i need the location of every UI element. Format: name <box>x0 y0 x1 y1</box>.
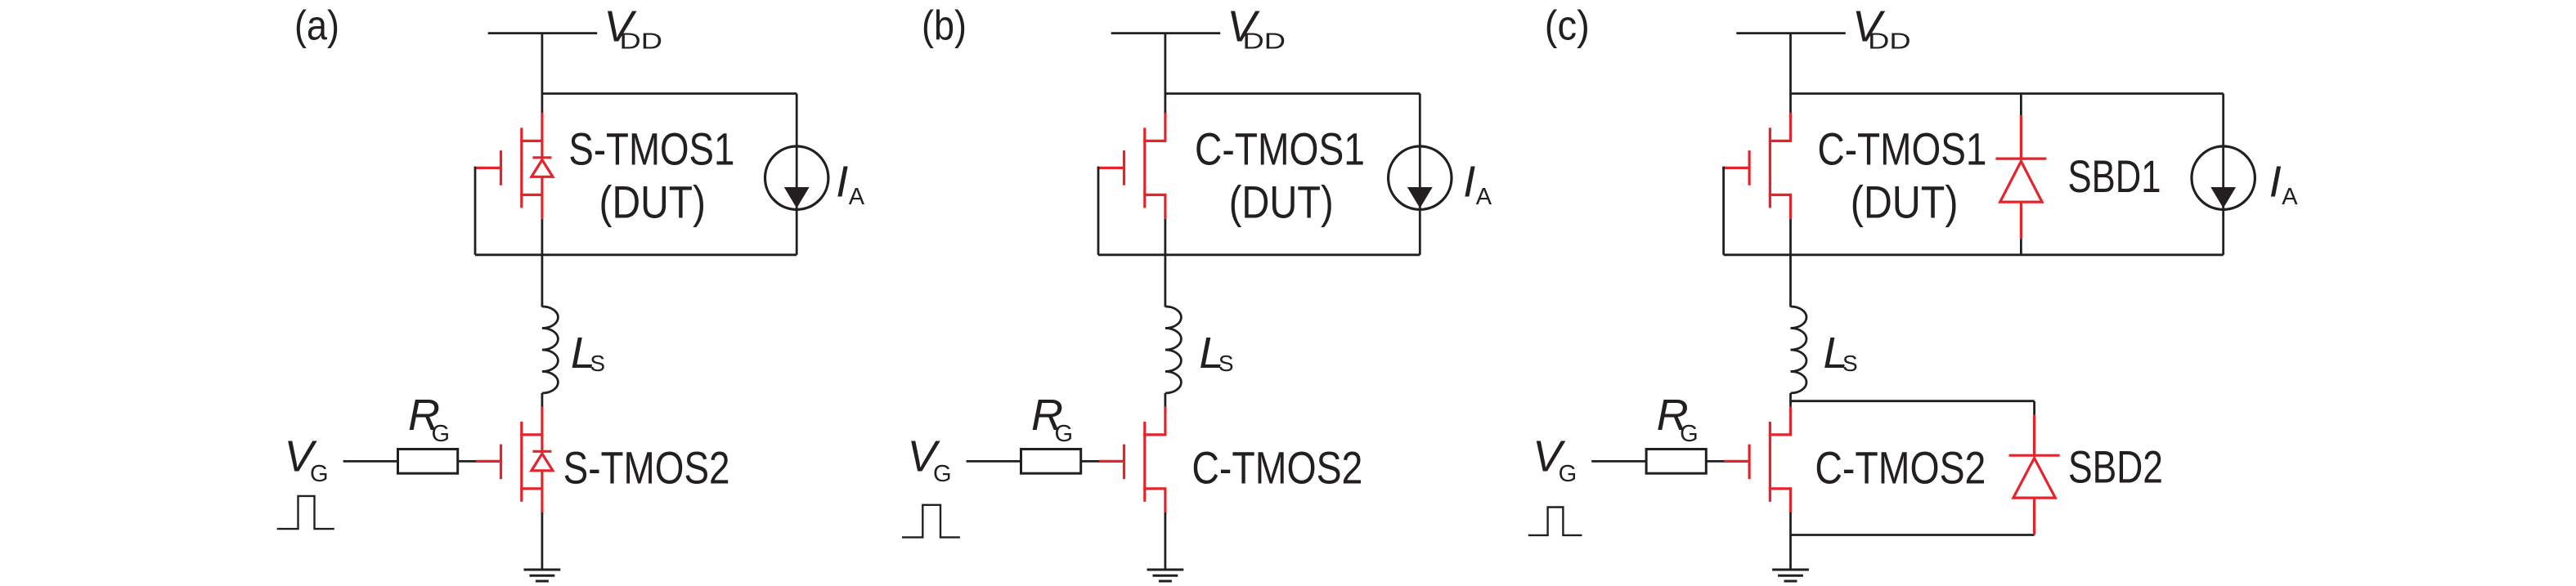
svg-text:SBD1: SBD1 <box>2068 150 2161 202</box>
svg-text:G: G <box>1680 421 1699 447</box>
svg-text:SBD2: SBD2 <box>2068 441 2163 493</box>
svg-text:(c): (c) <box>1545 2 1590 49</box>
svg-text:G: G <box>432 421 451 447</box>
svg-text:A: A <box>849 184 865 210</box>
svg-text:A: A <box>2282 184 2298 210</box>
svg-text:I: I <box>836 158 848 207</box>
svg-text:C-TMOS2: C-TMOS2 <box>1192 441 1362 493</box>
svg-text:A: A <box>1476 184 1492 210</box>
svg-text:C-TMOS1: C-TMOS1 <box>1818 123 1987 174</box>
svg-text:DD: DD <box>1868 29 1911 54</box>
svg-text:S: S <box>590 351 605 376</box>
svg-text:S-TMOS2: S-TMOS2 <box>563 441 730 493</box>
svg-text:(DUT): (DUT) <box>599 177 707 228</box>
svg-text:S: S <box>1218 351 1234 376</box>
svg-text:C-TMOS2: C-TMOS2 <box>1815 441 1986 493</box>
svg-text:(DUT): (DUT) <box>1851 177 1959 228</box>
svg-text:S: S <box>1842 351 1858 376</box>
svg-text:(DUT): (DUT) <box>1229 177 1334 228</box>
svg-text:G: G <box>933 461 952 487</box>
svg-text:I: I <box>2269 158 2282 207</box>
svg-text:S-TMOS1: S-TMOS1 <box>568 123 734 174</box>
svg-text:I: I <box>1463 158 1475 207</box>
svg-text:C-TMOS1: C-TMOS1 <box>1195 123 1365 174</box>
svg-text:G: G <box>310 461 329 487</box>
svg-text:(b): (b) <box>922 2 967 49</box>
svg-text:DD: DD <box>1243 29 1286 54</box>
svg-text:(a): (a) <box>294 2 339 49</box>
svg-text:DD: DD <box>620 29 663 54</box>
svg-text:G: G <box>1559 461 1577 487</box>
svg-text:G: G <box>1055 421 1074 447</box>
